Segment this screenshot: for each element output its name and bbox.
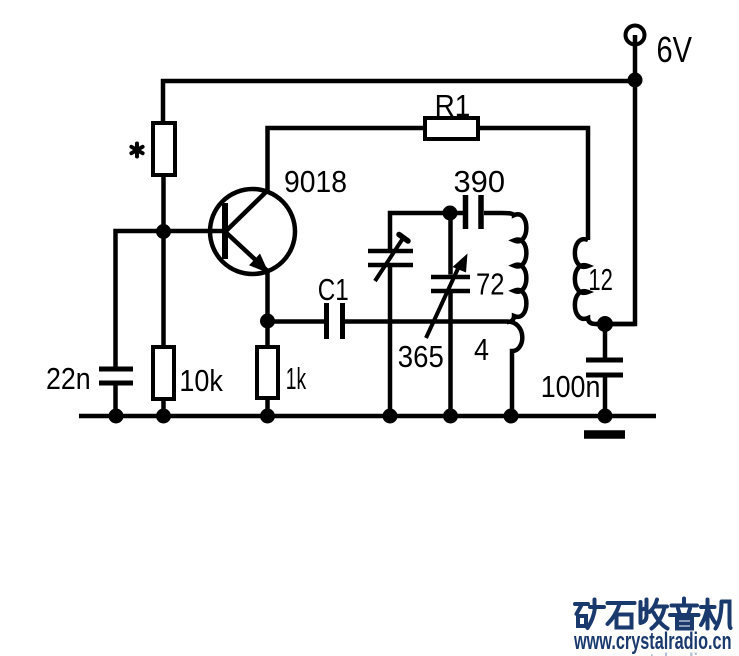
wire R1 to coil 12 [478, 128, 588, 240]
capacitor 22n [99, 367, 133, 372]
resistor R1 [425, 118, 478, 139]
svg-text:12: 12 [588, 262, 613, 297]
svg-text:C1: C1 [318, 272, 349, 307]
base bar [222, 203, 228, 259]
asterisk label [131, 144, 142, 157]
svg-text:100n: 100n [541, 369, 601, 404]
svg-text:4: 4 [474, 332, 489, 367]
inductor L1 4-turn section [507, 322, 522, 417]
variable capacitor section a plates [368, 249, 413, 254]
resistor * (bias) [153, 123, 175, 175]
wire varcap a to bus [388, 267, 393, 416]
wire junction to 100n [603, 324, 608, 358]
6V terminal [626, 26, 645, 45]
watermark 矿石收音机 [575, 599, 731, 629]
inductor L2 12 turns [575, 239, 635, 324]
capacitor 100n [586, 358, 623, 363]
char kuang [575, 600, 604, 629]
wire collector up to R1 [268, 128, 426, 191]
wire 100n to bus [603, 378, 608, 417]
wire 6V down right side [596, 35, 635, 324]
collector diagonal [226, 191, 268, 232]
char yin [670, 599, 699, 629]
capacitor 390 [463, 195, 469, 229]
node 6V junction [628, 73, 643, 88]
wire 22n to bus [113, 386, 118, 417]
variable capacitor section b [448, 213, 453, 275]
wire 390 to coil [484, 211, 502, 216]
resistor 10k [153, 347, 174, 399]
char shou [641, 600, 668, 629]
svg-text:www.crystalradio.cn: www.crystalradio.cn [573, 649, 731, 656]
svg-text:6V: 6V [657, 29, 693, 70]
node emitter junction [260, 314, 275, 329]
node bus dots [109, 409, 124, 424]
svg-text:72: 72 [476, 267, 505, 302]
emitter diagonal [226, 233, 268, 272]
inductor L1 72-turn section [502, 213, 526, 322]
bus ground rail [79, 414, 656, 419]
resistor 1k [257, 347, 278, 398]
ground [584, 430, 625, 439]
svg-text:365: 365 [398, 339, 444, 374]
node base junction [156, 224, 171, 239]
wire emitter down [265, 271, 270, 347]
wire tank top [390, 213, 463, 249]
varcap a arrow [375, 238, 404, 282]
node tank top junction [443, 206, 458, 221]
svg-text:10k: 10k [179, 363, 223, 398]
char ji [701, 600, 731, 629]
wire resistor* to base node to 10k [161, 175, 166, 347]
svg-text:1k: 1k [286, 361, 307, 396]
svg-text:9018: 9018 [284, 164, 347, 199]
wire emitter to C1 [268, 319, 325, 324]
transistor Q1 9018 [210, 189, 295, 274]
svg-text:390: 390 [454, 164, 506, 199]
svg-text:R1: R1 [435, 88, 471, 123]
varcap b arrow [426, 262, 461, 338]
svg-text:22n: 22n [46, 361, 91, 396]
wire base node left and down to 22n [116, 231, 223, 367]
wire 1k to bus [265, 398, 270, 416]
wire C1 to coil tap [345, 319, 507, 324]
node coil12/100n junction [597, 316, 613, 332]
wire 10k to bus [161, 399, 166, 416]
capacitor C1 [324, 303, 329, 339]
wire top feed rail [163, 81, 635, 123]
char shi [608, 603, 635, 628]
emitter arrow head [251, 255, 267, 271]
